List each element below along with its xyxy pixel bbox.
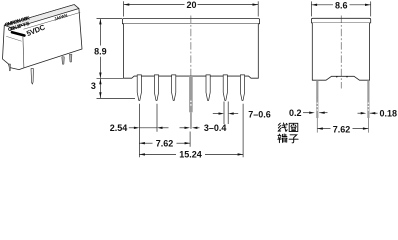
arrow left from gray line: [192, 127, 198, 129]
pin 7: [240, 75, 244, 101]
svg-text:2.54: 2.54: [110, 123, 128, 133]
dim line: [139, 153, 176, 155]
ext line pin2: [156, 104, 158, 132]
arrow right 15.24: [238, 153, 244, 155]
svg-text:8.6: 8.6: [335, 0, 348, 10]
ext line pin4: [189, 132, 191, 147]
ext line right: [257, 1, 259, 16]
between line: [139, 127, 157, 129]
arrow left 7.62 side: [317, 127, 323, 129]
front view lid: [122, 19, 259, 24]
tail right: [233, 113, 238, 115]
ext line right: [370, 1, 372, 16]
tail left: [180, 127, 186, 129]
char zi (terminal2): [289, 135, 298, 143]
svg-text:15.24: 15.24: [179, 150, 202, 160]
dim line: [312, 4, 333, 6]
arrow left from left pin: [319, 112, 325, 114]
top face: [4, 5, 79, 29]
ext line pin6 left: [223, 102, 225, 125]
arrow left from right pin: [370, 112, 376, 114]
svg-text:7.62: 7.62: [333, 124, 351, 134]
arrow right 7.62 side: [363, 127, 369, 129]
ext line pin1: [138, 104, 140, 158]
pin 3: [172, 75, 176, 101]
arrow right of 20: [253, 3, 259, 5]
svg-text:7.62: 7.62: [156, 138, 174, 148]
dim line: [317, 128, 330, 130]
char xian (coil1): [278, 123, 287, 131]
ext line bottom shared: [97, 77, 124, 79]
arrow up 3: [99, 79, 101, 84]
ext line left: [310, 1, 312, 16]
char duan (terminal1): [278, 134, 287, 143]
front-left vertical edge: [23, 37, 24, 68]
ext line pin6 right: [227, 102, 229, 125]
black bar mark: [12, 32, 24, 35]
arrow right to right pin: [361, 112, 367, 114]
dim line: [139, 142, 152, 144]
3d pin front: [31, 69, 33, 85]
dim line: [99, 79, 101, 98]
arrow right to pin1: [134, 127, 140, 129]
arrow up 8.9: [99, 19, 101, 25]
svg-text:3: 3: [91, 81, 96, 91]
3d pin left end: [9, 64, 11, 71]
arrow right to gray line: [185, 127, 191, 129]
tail right: [162, 127, 169, 129]
svg-text:3–0.4: 3–0.4: [204, 123, 227, 133]
arrow down 8.9: [99, 73, 101, 79]
ext line pin7: [242, 104, 244, 158]
coil pin 4 gray: [189, 76, 193, 112]
arrow right to left pin: [309, 112, 315, 114]
notch nub right: [346, 76, 348, 78]
side coil pin right: [367, 80, 369, 118]
pin 1: [137, 75, 141, 101]
ext line left: [123, 1, 125, 16]
lid seam on front face: [24, 12, 81, 29]
side view centerline: [340, 16, 342, 89]
arrow left 8.6: [312, 4, 318, 6]
arrow right 7.62: [185, 142, 191, 144]
front view body: [124, 24, 259, 78]
side coil pin left: [316, 80, 318, 118]
svg-text:0.18: 0.18: [380, 108, 398, 118]
arrow left 7.62: [139, 142, 145, 144]
arrow left of 20: [124, 3, 130, 5]
svg-text:0.2: 0.2: [289, 108, 302, 118]
dim line: [124, 4, 185, 6]
char quan (coil2): [289, 123, 298, 131]
arrow right to pin6: [219, 112, 225, 114]
tail right: [197, 127, 200, 129]
arrow left to pin2: [157, 127, 163, 129]
arrow down 3: [99, 92, 101, 97]
pin 5: [206, 75, 210, 101]
pin 6: [223, 75, 227, 101]
side view lid: [311, 18, 370, 23]
side view body: [312, 23, 369, 80]
dim line: [99, 19, 101, 45]
front view centerline: [190, 16, 192, 77]
svg-text:20: 20: [186, 0, 196, 10]
tail left: [213, 113, 219, 115]
pin 2: [154, 75, 158, 101]
3d pin back 2: [69, 54, 72, 62]
end face seam: [6, 36, 21, 41]
arrow left from pin6: [228, 112, 234, 114]
3d pin back 1: [62, 57, 65, 64]
svg-text:7–0.6: 7–0.6: [248, 109, 271, 119]
notch nub left: [336, 76, 338, 78]
leader left: [129, 127, 135, 129]
arrow right 8.6: [365, 4, 371, 6]
ext line top: [97, 18, 123, 20]
relay body silhouette: [3, 5, 83, 70]
svg-text:8.9: 8.9: [94, 47, 107, 57]
ext line pin tip: [97, 97, 136, 99]
arrow left 15.24: [139, 153, 145, 155]
